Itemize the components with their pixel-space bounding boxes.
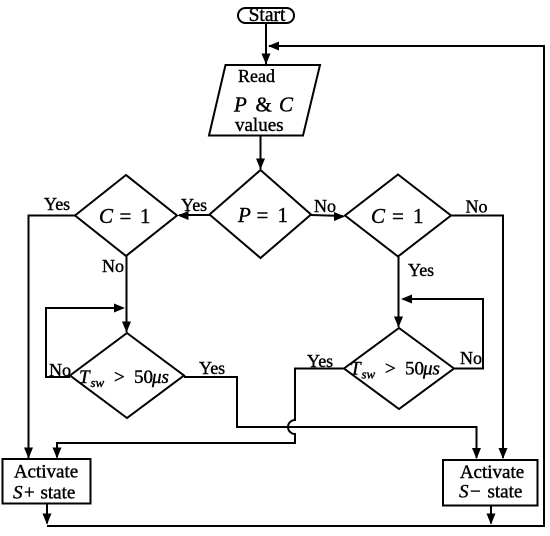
wire bottom feedback bbox=[47, 525, 545, 527]
svg-text:No: No bbox=[314, 196, 336, 216]
svg-text:50: 50 bbox=[134, 367, 153, 388]
svg-text:Read: Read bbox=[238, 66, 275, 86]
svg-text:sw: sw bbox=[362, 367, 376, 382]
wire top feedback bbox=[268, 42, 545, 51]
svg-text:No: No bbox=[460, 348, 482, 368]
svg-text:C: C bbox=[99, 204, 114, 228]
wire S- to bottom feedback bbox=[487, 506, 496, 525]
svg-text:S: S bbox=[13, 483, 23, 504]
svg-text:Activate: Activate bbox=[460, 462, 524, 483]
wire right C=1 yes bbox=[394, 257, 403, 328]
wire left C=1 yes to S+ bbox=[24, 216, 75, 459]
svg-text:+: + bbox=[24, 483, 35, 504]
svg-text:Yes: Yes bbox=[199, 358, 225, 378]
svg-text:Yes: Yes bbox=[181, 195, 207, 215]
svg-text:state: state bbox=[41, 483, 76, 504]
read P and C values parallelogram bbox=[209, 65, 320, 136]
wire right feedback bbox=[543, 45, 545, 527]
decision left Tsw bbox=[70, 333, 184, 418]
svg-text:&: & bbox=[256, 93, 272, 117]
svg-text:S: S bbox=[459, 482, 469, 503]
svg-text:1: 1 bbox=[140, 204, 151, 228]
svg-text:P: P bbox=[237, 203, 251, 227]
start terminal bbox=[238, 5, 294, 26]
decision right C=1 bbox=[345, 175, 451, 257]
svg-text:Start: Start bbox=[249, 5, 286, 26]
svg-text:state: state bbox=[488, 482, 523, 503]
svg-text:>: > bbox=[114, 367, 125, 388]
process activate S- state bbox=[443, 460, 538, 506]
svg-text:sw: sw bbox=[91, 375, 105, 390]
wire P=1 yes bbox=[178, 211, 210, 220]
svg-text:Yes: Yes bbox=[408, 260, 434, 280]
svg-text:=: = bbox=[392, 204, 404, 228]
svg-text:>: > bbox=[385, 359, 396, 380]
svg-text:No: No bbox=[466, 197, 488, 217]
svg-text:−: − bbox=[470, 482, 481, 503]
wire right C=1 no to S- bbox=[451, 216, 508, 460]
svg-text:P: P bbox=[233, 93, 247, 117]
decision right Tsw bbox=[344, 328, 454, 409]
svg-text:=: = bbox=[120, 204, 132, 228]
wire S+ to bottom feedback bbox=[43, 504, 52, 525]
wire right Tsw no loop bbox=[401, 295, 483, 369]
svg-text:Activate: Activate bbox=[14, 462, 78, 483]
wire read to P=1 bbox=[256, 135, 265, 170]
svg-text:=: = bbox=[257, 203, 269, 227]
svg-text:C: C bbox=[279, 93, 294, 117]
wire right Tsw yes to S+ box with hop bbox=[53, 369, 345, 459]
wire left C=1 no bbox=[122, 256, 131, 333]
svg-text:μs: μs bbox=[422, 359, 440, 380]
wire left Tsw yes to S- box bbox=[184, 377, 481, 459]
svg-text:T: T bbox=[350, 359, 362, 380]
svg-text:values: values bbox=[235, 115, 284, 136]
process activate S+ state bbox=[3, 459, 91, 504]
svg-text:No: No bbox=[102, 256, 124, 276]
svg-text:T: T bbox=[79, 367, 91, 388]
svg-text:1: 1 bbox=[278, 203, 289, 227]
svg-text:Yes: Yes bbox=[44, 194, 70, 214]
svg-text:μs: μs bbox=[151, 367, 169, 388]
wire start to read bbox=[262, 23, 271, 65]
svg-text:1: 1 bbox=[413, 204, 424, 228]
svg-text:C: C bbox=[371, 204, 386, 228]
wire P=1 no bbox=[311, 212, 345, 221]
decision left C=1 bbox=[75, 175, 177, 256]
decision P=1 bbox=[210, 170, 312, 258]
svg-text:50: 50 bbox=[405, 359, 424, 380]
wire left Tsw no loop bbox=[46, 304, 125, 378]
